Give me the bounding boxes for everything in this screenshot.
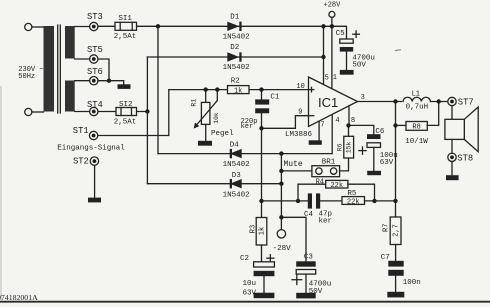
terminal ST2 (73, 157, 99, 167)
svg-text:D4: D4 (230, 141, 240, 149)
resistor R4 22k (316, 178, 348, 190)
svg-text:LM3886: LM3886 (285, 131, 313, 139)
svg-text:1N5402: 1N5402 (223, 191, 250, 199)
terminal ST6 (87, 67, 103, 85)
svg-text:C5: C5 (336, 30, 346, 38)
svg-text:D1: D1 (230, 13, 240, 21)
svg-text:10/1W: 10/1W (405, 138, 428, 146)
node +28V junction (330, 24, 334, 28)
svg-text:R2: R2 (231, 77, 240, 85)
svg-text:R3: R3 (250, 225, 258, 233)
svg-text:7: 7 (320, 122, 324, 130)
terminal ST4 (87, 100, 103, 116)
node C1 bottom (259, 126, 263, 130)
capacitor C5 4700u 50V (336, 30, 375, 70)
wire D3 row (147, 183, 281, 185)
jumper BR1 (312, 159, 340, 177)
border left edge (0, 86, 2, 301)
svg-text:4: 4 (335, 117, 339, 125)
wire primary top (32, 26, 44, 28)
resistor R7 2,7 (383, 217, 401, 261)
svg-text:+28V: +28V (324, 2, 342, 10)
node D3 on rail (279, 182, 283, 186)
node D1 rail (321, 24, 325, 28)
svg-text:R8: R8 (412, 123, 420, 131)
node L1 output junction (437, 99, 441, 103)
svg-text:10: 10 (296, 83, 304, 91)
node R1 wiper (215, 87, 219, 91)
potentiometer R1 10k (191, 90, 220, 141)
diode D2 1N5402 (223, 44, 250, 72)
node SI1 output (156, 24, 160, 28)
wire R5 right to output column (365, 200, 396, 202)
stray mark (395, 49, 401, 52)
fuse SI1 (114, 15, 137, 41)
ground ST2 (88, 198, 101, 203)
resistor R3 1k (250, 218, 267, 262)
wire C1 bottom to pin9 (262, 116, 309, 129)
capacitor C3 4700u 50V (292, 254, 331, 296)
node C1 top (259, 87, 263, 91)
svg-text:9: 9 (298, 109, 302, 117)
wire output column down (395, 102, 397, 218)
wire input row to pin10 (169, 89, 309, 91)
svg-text:10k: 10k (213, 112, 220, 123)
svg-text:ST4: ST4 (87, 100, 103, 110)
node D2 rail (321, 55, 325, 59)
wire R8 branch row (396, 124, 407, 126)
svg-text:ST6: ST6 (87, 67, 103, 77)
svg-text:2,5At: 2,5At (114, 33, 137, 41)
terminal ST1 (73, 126, 98, 140)
svg-text:ST7: ST7 (458, 98, 474, 108)
svg-text:ST3: ST3 (87, 12, 103, 22)
wire BR1 right to R6 (340, 158, 349, 171)
svg-text:974182001A: 974182001A (0, 293, 38, 302)
wire ST1 to input row (98, 90, 169, 136)
wire pin8 to C6 (349, 125, 374, 134)
wire L1 to ST7 (431, 101, 448, 103)
label Mute (284, 160, 303, 169)
wire secondary to ST6 (75, 80, 90, 82)
transformer TR core (58, 25, 61, 113)
wire SI2 row (98, 111, 147, 113)
node feedback output junction (393, 199, 397, 203)
svg-text:C4: C4 (304, 211, 314, 219)
svg-text:50V: 50V (352, 62, 366, 70)
fuse SI2 (114, 101, 137, 126)
ground pin 7 (309, 140, 322, 145)
label 230V 50Hz (18, 66, 43, 81)
diode D4 1N5402 (223, 141, 250, 169)
label Pegel (211, 130, 234, 138)
svg-text:R7: R7 (383, 224, 391, 232)
resistor R2 1k (228, 77, 250, 95)
node R8 branch (393, 123, 397, 127)
svg-text:D2: D2 (230, 44, 239, 52)
svg-text:Mute: Mute (284, 160, 303, 169)
svg-text:1: 1 (333, 74, 337, 82)
wire R4 right lead (348, 184, 375, 201)
svg-text:0,7uH: 0,7uH (406, 104, 429, 112)
terminal ST7 (448, 97, 474, 107)
ground center-tap (118, 84, 131, 89)
wire +28V rail vertical to pin5 (323, 26, 325, 85)
svg-text:1N5402: 1N5402 (223, 34, 250, 42)
svg-text:Eingangs-Signal: Eingangs-Signal (57, 145, 125, 153)
label LM3886 (285, 131, 313, 139)
svg-text:Pegel: Pegel (211, 130, 234, 138)
ground C2 (254, 293, 275, 299)
svg-text:R6: R6 (337, 143, 344, 151)
node C3 branch (279, 215, 283, 219)
svg-text:R5: R5 (347, 190, 357, 198)
svg-text:C2: C2 (240, 255, 249, 263)
svg-text:1N5402: 1N5402 (223, 161, 250, 169)
wire speaker to ST8 (451, 139, 453, 153)
wire ST5 to center-tap junction (98, 59, 109, 81)
wire -28V rail (280, 154, 282, 230)
transformer TR primary terminal bottom (25, 108, 32, 115)
svg-text:5: 5 (325, 74, 329, 82)
capacitor C7 100n (381, 254, 421, 292)
wire ST2 to ground (94, 165, 96, 197)
svg-text:1k: 1k (234, 87, 242, 95)
wire primary bottom (32, 111, 44, 113)
svg-text:50Hz: 50Hz (18, 73, 35, 81)
node SI2 output (145, 109, 149, 113)
node R1 top (204, 87, 208, 91)
pin 4 label (335, 117, 339, 125)
wire rail to C3 (281, 217, 306, 261)
svg-text:ST5: ST5 (87, 45, 103, 55)
wire R4 left lead (298, 184, 326, 201)
svg-text:IC1: IC1 (318, 95, 338, 110)
node R4 right junction (372, 199, 376, 203)
border bottom rule (0, 301, 490, 303)
ground C7 (387, 292, 404, 298)
svg-text:2,5At: 2,5At (114, 118, 137, 126)
transformer TR secondary winding lower (65, 81, 75, 112)
wire D4 row (158, 115, 332, 154)
terminal ST5 (87, 45, 103, 63)
node BR1 on rail (279, 169, 283, 173)
svg-text:100n: 100n (403, 279, 421, 287)
wire output row (358, 101, 402, 103)
wire ST8 to ground (451, 162, 453, 176)
node pin8 junction (346, 123, 350, 127)
node pin4 on -28V rail (279, 151, 283, 155)
svg-text:ST8: ST8 (457, 153, 473, 163)
ground C5 (340, 70, 354, 75)
ground ST8 (446, 175, 459, 180)
node center-tap junction (107, 79, 111, 83)
terminal ST8 (448, 153, 473, 163)
ground R1 (198, 141, 212, 146)
pin 7 stem and label (319, 121, 325, 140)
svg-text:-28V: -28V (273, 245, 292, 253)
pin 5 label (325, 74, 329, 82)
svg-text:C7: C7 (381, 254, 390, 262)
resistor R8 10/1W (405, 122, 428, 147)
capacitor C1 220p ker (241, 90, 280, 131)
svg-text:C1: C1 (270, 93, 280, 101)
pin 3 output label (361, 94, 365, 102)
pin 10 label (296, 83, 304, 91)
ground C3 (296, 293, 316, 299)
wire C1 column down to feedback node (261, 128, 263, 217)
svg-text:L1: L1 (412, 90, 420, 98)
wire secondary to ST3 (75, 26, 90, 28)
inductor L1 0,7uH (403, 90, 431, 111)
diode D3 1N5402 (223, 172, 250, 199)
label document number 974182001A (0, 293, 38, 302)
svg-text:63V: 63V (380, 159, 394, 167)
svg-text:BR1: BR1 (322, 159, 336, 167)
svg-text:1k: 1k (259, 227, 267, 235)
resistor R5 22k (342, 190, 365, 207)
label Eingangs-Signal (57, 145, 125, 153)
svg-text:ker: ker (241, 123, 254, 131)
pin 8 stem and label (349, 106, 355, 126)
svg-text:SI2: SI2 (119, 101, 133, 109)
svg-text:ker: ker (319, 218, 333, 226)
svg-text:C6: C6 (375, 128, 385, 136)
svg-text:ST2: ST2 (73, 157, 89, 167)
pin 1 label (333, 74, 337, 82)
diode D1 1N5402 (223, 13, 250, 41)
svg-text:22k: 22k (330, 182, 343, 190)
svg-text:SI1: SI1 (118, 15, 132, 23)
transformer TR primary terminal top (25, 23, 32, 30)
wire feedback row to C4 (262, 200, 308, 202)
svg-text:ST1: ST1 (73, 126, 89, 136)
wire R8 right riser (427, 102, 438, 126)
supply +28V terminal (324, 2, 342, 90)
wire +28V rail top row (98, 26, 347, 39)
transformer TR primary winding (44, 26, 55, 112)
node feedback R3 top (259, 199, 263, 203)
wire secondary to ST4 (75, 111, 90, 113)
terminal ST3 (87, 12, 103, 30)
wire ST6 to ground (98, 81, 124, 85)
transformer TR secondary winding upper (65, 26, 75, 59)
svg-text:1N5402: 1N5402 (223, 64, 250, 72)
svg-text:D3: D3 (232, 172, 242, 180)
capacitor C2 10u 63V (240, 255, 274, 298)
capacitor C6 100u 63V (359, 128, 398, 171)
wire C4 to R5 (320, 200, 342, 202)
svg-text:8: 8 (351, 117, 355, 125)
svg-text:15k: 15k (346, 141, 353, 153)
svg-text:R1: R1 (191, 99, 198, 107)
node output L1 branch (393, 99, 397, 103)
capacitor C4 47p ker (304, 193, 332, 225)
wire ST7 to speaker (451, 106, 453, 120)
wire SI1 junction down to D4 row (157, 26, 159, 153)
speaker LS (445, 107, 478, 152)
node R4 left junction (296, 199, 300, 203)
supply -28V terminal (273, 230, 292, 254)
svg-text:10u: 10u (243, 280, 257, 288)
op-amp IC1 LM3886 (309, 77, 358, 127)
pin 9 label (298, 109, 302, 117)
svg-text:22k: 22k (347, 198, 360, 206)
svg-text:2,7: 2,7 (393, 224, 401, 237)
svg-text:C3: C3 (304, 254, 314, 262)
ground C6 (367, 171, 381, 175)
svg-text:R4: R4 (316, 178, 324, 186)
resistor R6 15k (337, 125, 354, 158)
wire SI2 junction up to D2 row (146, 57, 148, 184)
wire D2 row (147, 56, 323, 58)
wire BR1 left to rail (281, 170, 312, 172)
wire secondary to ST5 (75, 58, 90, 60)
